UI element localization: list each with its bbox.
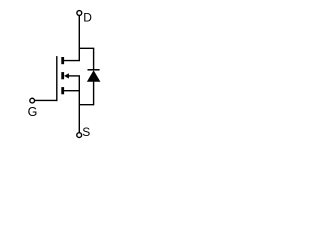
gate electrode vertical line (56, 56, 58, 101)
svg-text:S: S (82, 125, 90, 139)
wire: branch to body diode (top) (79, 48, 93, 70)
terminal S circle (77, 133, 82, 138)
body arrow head (points left into channel) (64, 73, 69, 78)
MOSFET channel bar (source segment) (61, 87, 64, 94)
wire: diode bottom to source node (79, 81, 93, 105)
diode D1 cathode bar (88, 69, 100, 71)
body arrow shaft (68, 75, 81, 77)
MOSFET channel bar (drain segment) (61, 57, 64, 64)
terminal G circle (30, 98, 35, 103)
svg-text:G: G (28, 105, 38, 119)
svg-text:D: D (83, 10, 92, 24)
terminal D circle (77, 11, 82, 16)
wire: source vertical down to S terminal (78, 76, 80, 133)
wire: source contact (64, 90, 80, 92)
wire: drain vertical from D terminal down to drain contact (64, 15, 80, 60)
diode D1 anode triangle (87, 70, 101, 82)
wire: gate lead (34, 99, 57, 101)
MOSFET channel bar (body segment) (61, 72, 64, 79)
